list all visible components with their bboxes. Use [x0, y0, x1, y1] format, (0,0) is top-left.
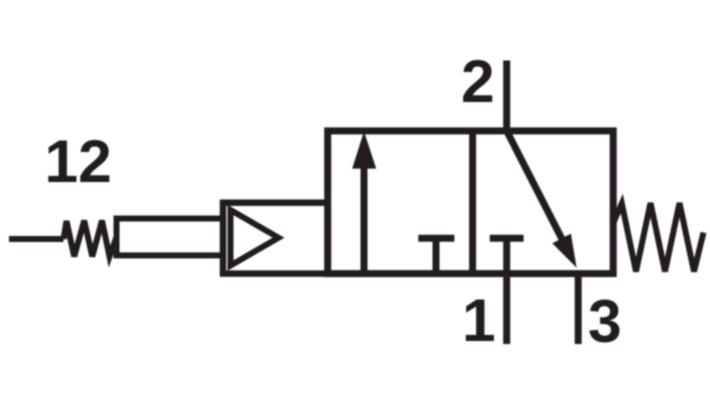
port 1 stub with stem	[503, 238, 510, 344]
pilot plunger rod	[117, 219, 224, 256]
pilot actuator box	[223, 203, 328, 274]
flow path 2 to 3 diagonal	[507, 131, 564, 242]
valve body divider	[469, 131, 476, 274]
pilot port 12 lead wire	[9, 236, 64, 242]
port 2 stub	[503, 61, 510, 131]
svg-text:1: 1	[462, 286, 496, 354]
flow arrow 1 to 2 shaft (left square)	[361, 167, 368, 274]
svg-text:12: 12	[45, 127, 112, 195]
svg-text:3: 3	[588, 287, 622, 355]
flow arrow 1 to 2 head	[352, 131, 376, 168]
pilot spring zigzag	[64, 221, 117, 257]
valve body outer rectangle	[328, 131, 614, 274]
pilot triangle symbol	[231, 210, 279, 266]
blocked port symbol (left square)	[418, 238, 454, 273]
return spring	[613, 203, 703, 272]
blocked port symbol bar (right square, port 1)	[490, 235, 524, 242]
flow path 2 to 3 arrowhead	[552, 234, 576, 268]
svg-text:2: 2	[461, 47, 495, 115]
port 3 stub	[575, 274, 582, 344]
